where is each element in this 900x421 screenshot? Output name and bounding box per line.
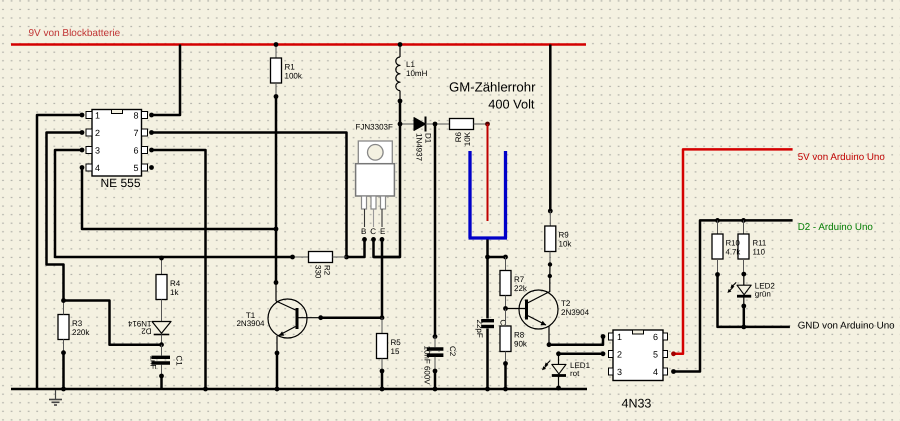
wire ground rail [11, 388, 587, 391]
node 4N33 pin2 stub [601, 351, 606, 356]
LED LED1 rot [541, 354, 591, 388]
svg-text:R3: R3 [72, 319, 83, 328]
node D1 anode junction [398, 122, 403, 127]
IC U2 4N33 [609, 330, 668, 411]
node C1 bottom [159, 374, 164, 379]
svg-text:4: 4 [653, 367, 658, 377]
svg-text:L1: L1 [406, 60, 415, 69]
wire GM tube bottom stub [486, 240, 489, 258]
node C2 tap junction [433, 122, 438, 127]
wire L1/D1 node to FJN collector [374, 101, 401, 257]
svg-text:100k: 100k [285, 72, 303, 81]
node R3 top [61, 298, 66, 303]
wire C2 branch from D1 node [434, 124, 437, 337]
svg-text:R6: R6 [454, 131, 463, 142]
svg-text:NE 555: NE 555 [101, 176, 141, 190]
svg-text:4: 4 [95, 163, 100, 173]
svg-text:6: 6 [653, 332, 658, 342]
svg-text:C1: C1 [175, 356, 184, 367]
node pin6 at rail [203, 387, 208, 392]
node LED1 cathode at rail [556, 386, 561, 391]
wire pin7 run [152, 133, 347, 258]
node T1 emitter at rail [275, 387, 280, 392]
node FJN emitter pin [380, 237, 385, 242]
svg-text:10mH: 10mH [406, 69, 428, 78]
svg-text:1nF: 1nF [149, 356, 158, 370]
wire T2 emitter to 4N33 pin1 [549, 337, 603, 345]
svg-text:2: 2 [617, 350, 622, 360]
resistor R4 1k [156, 257, 181, 322]
node T2 emitter [547, 342, 552, 347]
svg-text:6: 6 [133, 146, 138, 156]
svg-text:1: 1 [95, 111, 100, 121]
svg-text:R4: R4 [170, 279, 181, 288]
node R5 bottom [380, 369, 385, 374]
node T1 collector junction [274, 280, 279, 285]
wire pin6 run [152, 150, 206, 389]
diode D1 1N4937 [400, 117, 450, 162]
svg-text:90k: 90k [514, 340, 528, 349]
svg-text:D2 - Arduino Uno: D2 - Arduino Uno [798, 222, 874, 233]
svg-text:C2: C2 [448, 346, 457, 357]
svg-text:B: B [361, 227, 366, 236]
svg-text:1: 1 [617, 332, 622, 342]
resistor R11 110 [726, 220, 767, 274]
svg-text:4.7k: 4.7k [726, 248, 741, 257]
node R1 top [274, 42, 279, 47]
resistor R10 4.7k [712, 220, 723, 274]
node FJN base pin [362, 237, 367, 242]
resistor R9 10k [545, 211, 573, 265]
wire 9V rail (red) [11, 43, 586, 46]
wire LED2 to GND run [743, 306, 746, 327]
node R11 bottom / LED2 anode [741, 272, 746, 277]
wire R3 bottom to rail [62, 353, 65, 389]
wire FJN base to R2 node [347, 239, 365, 257]
node 4N33 pin1 stub [601, 334, 606, 339]
svg-text:FJN3303F: FJN3303F [356, 123, 393, 132]
wire FJN collector to L1/D1 node [374, 239, 401, 257]
node D2/C1 junction [159, 342, 164, 347]
node R4 top pin [159, 256, 164, 261]
wire R3 top to D2/C1 node [64, 301, 162, 345]
node T1 base junction [318, 315, 323, 320]
resistor R6 10K [450, 119, 488, 147]
svg-text:C: C [370, 227, 376, 236]
node R7 top [503, 255, 508, 260]
node R3 at rail [61, 387, 66, 392]
wire R9 to T2 collector [549, 265, 551, 277]
node T1 emitter pin [275, 351, 280, 356]
IC U1 NE 555 [86, 110, 148, 191]
node T2 collector pin [548, 274, 552, 278]
svg-text:1k: 1k [170, 288, 179, 297]
wire C3 branch down to ground rail [486, 257, 489, 319]
svg-text:D1: D1 [424, 133, 433, 144]
diode D2 1N914 [127, 319, 171, 345]
svg-text:R7: R7 [514, 275, 525, 284]
node R6 right / HV anode [485, 122, 490, 127]
node R10 bottom [715, 272, 720, 277]
svg-text:3: 3 [617, 367, 622, 377]
node L1 top [398, 42, 403, 47]
svg-text:10K: 10K [463, 131, 472, 146]
node R10 top [715, 218, 720, 223]
resistor R3 220k [58, 301, 90, 353]
wire pin1 run [37, 115, 82, 389]
node tube bottom [485, 255, 490, 260]
svg-text:R10: R10 [726, 239, 741, 248]
svg-text:10nF 600V: 10nF 600V [423, 346, 432, 386]
wire R9 riser from 9V rail [549, 45, 552, 212]
wire pin4 run [82, 168, 276, 230]
node R8 at rail [503, 387, 508, 392]
svg-text:5: 5 [133, 163, 138, 173]
svg-text:GND von Arduino Uno: GND von Arduino Uno [798, 321, 895, 332]
svg-text:330: 330 [314, 265, 323, 279]
wire LED1 to 4N33 pin2 [559, 353, 604, 356]
svg-text:R9: R9 [559, 231, 570, 240]
node 4N33 pin4 [671, 369, 676, 374]
wire pin2 run [47, 133, 83, 301]
transistor Q1 FJN3303F (TO-220) [356, 123, 395, 237]
wire C1 to rail [160, 376, 163, 389]
wire R8 to rail [504, 364, 507, 390]
svg-text:10k: 10k [559, 240, 573, 249]
node R11 top [741, 218, 746, 223]
node LED2 cathode [741, 304, 746, 309]
resistor R1 100k [271, 45, 303, 97]
node L1 bottom [398, 99, 403, 104]
node LED1 anode [556, 351, 561, 356]
svg-text:rot: rot [570, 369, 580, 378]
node tube branch at rail [485, 387, 490, 392]
GM tube cathode (blue) [469, 151, 508, 238]
node R8 bottom [503, 361, 508, 366]
svg-text:R11: R11 [753, 239, 767, 248]
wire pin3 run [55, 150, 293, 257]
svg-text:1N914: 1N914 [127, 319, 151, 328]
svg-text:5V von Arduino Uno: 5V von Arduino Uno [798, 152, 886, 163]
resistor R2 330 [293, 252, 347, 279]
node C2 at rail [433, 387, 438, 392]
wire R1 to T1 collector [275, 97, 278, 283]
wire tube node to R7 branch [488, 256, 506, 259]
node R9 bottom pin [548, 262, 552, 266]
ground symbol [49, 390, 62, 405]
svg-text:15: 15 [391, 347, 400, 356]
svg-text:2: 2 [95, 128, 100, 138]
svg-text:110: 110 [753, 248, 766, 257]
wire T1 emitter to rail [276, 353, 279, 389]
wire 5V from Arduino (red) [674, 149, 793, 353]
svg-text:7: 7 [133, 128, 138, 138]
svg-text:220k: 220k [72, 328, 90, 337]
node R3 bottom [61, 350, 66, 355]
svg-text:2N3904: 2N3904 [236, 319, 265, 328]
svg-text:5: 5 [653, 350, 658, 360]
node pin4 wire end [274, 227, 279, 232]
svg-text:22k: 22k [514, 284, 528, 293]
svg-text:3: 3 [95, 146, 100, 156]
node R7/R8 junction [503, 306, 508, 311]
svg-text:R5: R5 [391, 338, 402, 347]
svg-text:T2: T2 [561, 299, 571, 308]
svg-text:4N33: 4N33 [622, 397, 652, 411]
wire C2 to rail [434, 371, 437, 389]
node 4N33 pin5 [671, 351, 676, 356]
capacitor C2 10nF 600V [423, 337, 458, 386]
NE555 pin junction dots [80, 113, 154, 170]
svg-text:2N3904: 2N3904 [561, 308, 590, 317]
transistor T1 2N3904 [236, 283, 320, 354]
LED LED2 gruen [726, 274, 775, 306]
svg-text:R8: R8 [514, 331, 525, 340]
wire HV anode (red) [487, 124, 489, 221]
node LED2 branch on GND run [741, 325, 746, 330]
node R2 left pin [290, 255, 295, 260]
node R2 right junction [344, 255, 349, 260]
svg-text:E: E [380, 227, 385, 236]
wire T1 base to R5 top [321, 316, 382, 319]
svg-text:R1: R1 [285, 63, 296, 72]
node R5 top junction [380, 315, 385, 320]
svg-text:R2: R2 [323, 265, 332, 276]
svg-text:GM-Zählerrohr: GM-Zählerrohr [449, 79, 536, 94]
node FJN collector pin [371, 237, 376, 242]
capacitor C3 22pF [475, 320, 508, 338]
svg-text:9V von Blockbatterie: 9V von Blockbatterie [29, 28, 121, 39]
wire pin8 riser [152, 45, 181, 116]
resistor R8 90k [500, 309, 528, 364]
node C2 bottom [433, 369, 438, 374]
inductor L1 10mH [396, 45, 428, 102]
wire R5 to rail [381, 371, 384, 389]
svg-text:1N4937: 1N4937 [415, 133, 424, 162]
wire FJN emitter to R5 node [381, 239, 384, 317]
transistor T2 2N3904 [506, 276, 590, 345]
node R9 top [548, 209, 553, 214]
svg-text:8: 8 [133, 111, 138, 121]
wire D2 to Arduino [674, 220, 793, 371]
wire R10 to GND run [718, 275, 790, 327]
capacitor C1 1nF [149, 345, 184, 376]
resistor R7 22k [500, 257, 528, 309]
svg-text:grün: grün [755, 290, 771, 299]
svg-text:400 Volt: 400 Volt [488, 96, 535, 111]
node C2 top [433, 334, 438, 339]
node R1 bottom [274, 94, 279, 99]
resistor R5 15 [377, 318, 402, 371]
svg-text:22pF: 22pF [475, 320, 484, 338]
node R5 at rail [380, 387, 385, 392]
